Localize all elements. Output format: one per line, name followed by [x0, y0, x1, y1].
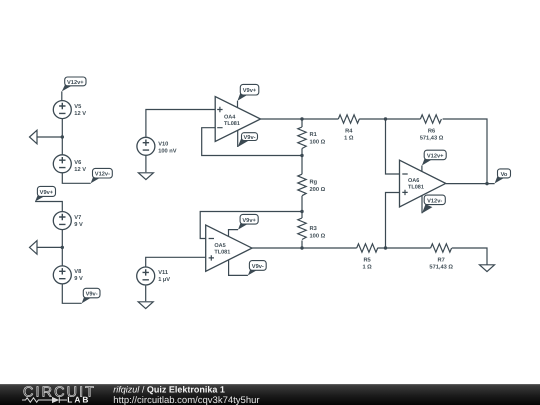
- svg-text:V10: V10: [158, 142, 168, 148]
- svg-text:http://circuitlab.com/cqv3k74t: http://circuitlab.com/cqv3k74ty5hur: [113, 395, 259, 405]
- svg-text:V9v+: V9v+: [40, 190, 54, 196]
- svg-text:LAB: LAB: [67, 395, 90, 405]
- svg-text:V8: V8: [74, 269, 81, 275]
- svg-text:V5: V5: [74, 104, 81, 110]
- svg-text:V7: V7: [74, 215, 81, 221]
- svg-text:V11: V11: [158, 270, 168, 276]
- svg-text:V9v-: V9v-: [252, 264, 264, 270]
- svg-text:12 V: 12 V: [74, 111, 86, 117]
- svg-text:rifqizul / Quiz Elektronika 1: rifqizul / Quiz Elektronika 1: [113, 385, 225, 395]
- svg-text:V6: V6: [74, 160, 81, 166]
- svg-text:1 Ω: 1 Ω: [344, 136, 354, 142]
- svg-text:V12v-: V12v-: [427, 198, 442, 204]
- svg-text:OA6: OA6: [408, 178, 419, 184]
- svg-text:100 nV: 100 nV: [158, 149, 177, 155]
- svg-text:V12v-: V12v-: [95, 172, 110, 178]
- svg-text:V9v+: V9v+: [243, 88, 257, 94]
- svg-text:V9v-: V9v-: [243, 135, 255, 141]
- svg-text:V9v+: V9v+: [242, 218, 256, 224]
- svg-text:12 V: 12 V: [74, 167, 86, 173]
- svg-text:V9v-: V9v-: [86, 292, 98, 298]
- svg-text:571,43 Ω: 571,43 Ω: [429, 265, 453, 271]
- svg-text:R6: R6: [428, 129, 435, 135]
- svg-text:Rg: Rg: [310, 179, 318, 185]
- svg-text:TL081: TL081: [214, 249, 230, 255]
- svg-text:R7: R7: [438, 258, 445, 264]
- svg-text:9 V: 9 V: [74, 222, 83, 228]
- svg-text:V12v+: V12v+: [427, 153, 444, 159]
- svg-text:V12v+: V12v+: [67, 80, 84, 86]
- svg-text:R1: R1: [310, 132, 317, 138]
- svg-text:R4: R4: [345, 129, 353, 135]
- svg-text:100 Ω: 100 Ω: [310, 139, 326, 145]
- svg-text:200 Ω: 200 Ω: [310, 187, 326, 193]
- svg-text:Vo: Vo: [501, 172, 508, 178]
- svg-text:TL081: TL081: [408, 185, 424, 191]
- svg-text:1 Ω: 1 Ω: [362, 265, 372, 271]
- svg-text:1 µV: 1 µV: [158, 277, 170, 283]
- svg-text:OA5: OA5: [214, 243, 225, 249]
- svg-text:9 V: 9 V: [74, 276, 83, 282]
- svg-text:571,43 Ω: 571,43 Ω: [420, 136, 444, 142]
- svg-text:R5: R5: [363, 258, 370, 264]
- svg-text:R3: R3: [310, 226, 317, 232]
- svg-text:100 Ω: 100 Ω: [310, 233, 326, 239]
- svg-text:OA4: OA4: [224, 115, 236, 121]
- svg-text:TL081: TL081: [224, 121, 240, 127]
